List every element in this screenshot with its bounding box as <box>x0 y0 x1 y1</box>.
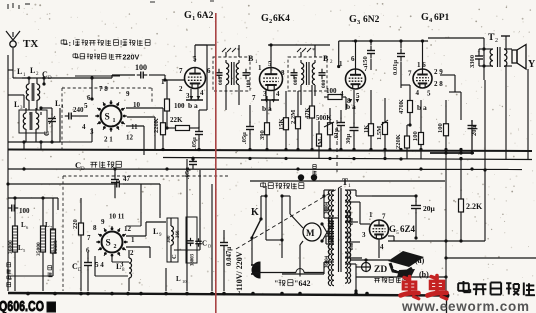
label G2 6K4 <box>261 13 290 25</box>
wire right lower h1 <box>444 256 536 259</box>
transistor picture b <box>397 269 429 279</box>
wire power top <box>372 195 416 197</box>
svg-text:150: 150 <box>362 56 369 66</box>
tube G2 <box>260 68 283 91</box>
G2 pins <box>252 60 285 102</box>
wire S1 stubs <box>8 108 163 155</box>
wire antenna to coils <box>13 70 44 78</box>
IF transformer B1 <box>213 45 250 110</box>
svg-text:1: 1 <box>369 211 373 219</box>
speaker Y <box>512 45 536 71</box>
resistor 390 <box>259 96 270 150</box>
wire G2 top <box>269 43 272 68</box>
svg-text:L: L <box>30 66 35 75</box>
coil column3 <box>51 220 60 262</box>
svg-text:100: 100 <box>326 87 337 95</box>
watermark url <box>401 299 530 313</box>
svg-text:100: 100 <box>412 131 419 141</box>
svg-text:"642: "642 <box>294 279 310 288</box>
wire G3 top <box>337 39 357 69</box>
resistor 22K <box>166 116 199 131</box>
label hongxing <box>274 279 310 288</box>
svg-text:b a: b a <box>188 101 198 110</box>
svg-text:500K: 500K <box>316 115 332 122</box>
watermark Q606 <box>0 298 56 313</box>
junction dots lower <box>22 148 486 172</box>
label L4 <box>55 99 64 110</box>
coil L6 column <box>8 216 29 291</box>
svg-text:360: 360 <box>176 230 181 238</box>
svg-text:D: D <box>78 268 82 273</box>
svg-text:1M: 1M <box>317 139 324 148</box>
dashed link <box>236 120 342 249</box>
svg-text:S: S <box>106 239 111 249</box>
wire K top <box>261 188 268 240</box>
watermark bug1 <box>401 277 419 299</box>
resistor 100 b2 <box>324 87 346 110</box>
svg-text:36000: 36000 <box>8 240 14 254</box>
volume pot 500K <box>316 108 334 150</box>
tube G3 <box>346 69 366 89</box>
svg-text:5: 5 <box>356 92 360 100</box>
resistor 100 g4k <box>412 100 424 159</box>
antenna TX <box>6 31 38 70</box>
svg-text::: : <box>69 39 72 48</box>
svg-text:S: S <box>105 113 110 123</box>
band switch S1 <box>95 100 127 132</box>
svg-text:5: 5 <box>427 90 431 98</box>
svg-text:1K: 1K <box>363 125 370 133</box>
core L1 L2 <box>32 83 34 101</box>
band switch S2 <box>96 226 128 258</box>
capacitor .05u lower <box>184 157 197 180</box>
wire out mid <box>430 151 474 154</box>
svg-text:3: 3 <box>186 92 190 100</box>
dashed frame S2 <box>63 176 230 291</box>
wire G4 top <box>421 39 424 69</box>
svg-text:G: G <box>184 10 192 21</box>
svg-text:1: 1 <box>161 78 165 86</box>
resistor 2.2K <box>459 199 484 243</box>
svg-text:6K4: 6K4 <box>273 14 290 24</box>
label L5 <box>18 244 26 253</box>
svg-text:8: 8 <box>281 69 285 77</box>
svg-text:~110V/ 220V: ~110V/ 220V <box>235 251 244 295</box>
svg-text:36004: 36004 <box>325 201 330 214</box>
power transformer T1 <box>325 188 355 286</box>
osc coil box <box>167 218 178 262</box>
svg-text:b a: b a <box>417 103 427 112</box>
svg-text:(a): (a) <box>415 256 425 265</box>
svg-text:7: 7 <box>87 234 91 242</box>
wire S1 to G1 <box>90 75 184 82</box>
resistor 220K g4 <box>395 123 412 159</box>
wire right edge vertical <box>505 90 507 160</box>
svg-text:7: 7 <box>179 67 183 75</box>
coil L7 column <box>36 216 53 291</box>
svg-text:220K: 220K <box>153 118 160 133</box>
wire screen vertical right <box>484 80 486 241</box>
wire mid verticals <box>126 159 232 291</box>
pot 1.5M <box>376 98 388 159</box>
svg-text:G: G <box>349 14 357 25</box>
S2 numbers <box>86 213 135 270</box>
svg-text:4: 4 <box>82 123 86 131</box>
G3 pins <box>339 55 368 105</box>
svg-text:C: C <box>171 254 178 259</box>
svg-text:6A2: 6A2 <box>197 11 214 21</box>
svg-text:0.01μ: 0.01μ <box>392 60 399 75</box>
svg-text:1 6: 1 6 <box>417 61 426 69</box>
wire T2 top <box>428 38 484 41</box>
red line <box>215 13 217 313</box>
svg-text:5 4: 5 4 <box>95 261 104 269</box>
svg-text:D: D <box>81 167 85 172</box>
svg-text:www.eeworm.com: www.eeworm.com <box>401 299 530 313</box>
capacitor 240 padder <box>65 106 88 120</box>
motor M <box>303 223 321 241</box>
svg-text:9: 9 <box>101 218 105 226</box>
svg-text:080: 080 <box>293 77 299 86</box>
label L1 L2 CD <box>17 66 52 81</box>
IF transformer B2 <box>288 45 327 105</box>
svg-text:L: L <box>153 227 158 236</box>
wire AVC bus <box>163 158 532 160</box>
wire G1 bottom <box>186 89 203 100</box>
top edge artifacts <box>8 1 214 9</box>
wire L2 to S1 <box>44 76 120 101</box>
svg-text:1: 1 <box>348 183 351 189</box>
wire bl mesh <box>8 196 58 276</box>
resistor 2.2M <box>290 91 301 150</box>
svg-text:12: 12 <box>126 134 134 142</box>
core L3 L4 <box>19 110 47 133</box>
svg-text:5: 5 <box>84 102 88 110</box>
svg-text:390: 390 <box>259 130 266 140</box>
svg-text:1.5M: 1.5M <box>376 126 383 140</box>
svg-text:(b): (b) <box>419 270 429 279</box>
label tone rotated <box>313 165 317 175</box>
svg-text:35000: 35000 <box>36 242 42 256</box>
svg-text:K: K <box>251 207 259 218</box>
coil L4 <box>36 108 39 142</box>
svg-text:G: G <box>421 12 429 23</box>
tube G1 <box>185 68 206 89</box>
wire top tube caps <box>195 41 428 45</box>
capacitor 0.01u coupling <box>392 39 405 88</box>
S1 numbers <box>82 85 141 144</box>
svg-text:100: 100 <box>135 63 147 72</box>
svg-text:1: 1 <box>258 64 262 72</box>
coil L3 <box>23 108 26 142</box>
svg-text:220: 220 <box>72 219 79 229</box>
svg-text:2: 2 <box>114 244 117 250</box>
resistor 470K <box>398 85 413 125</box>
svg-text:240: 240 <box>73 106 84 114</box>
label power socket <box>261 174 318 189</box>
svg-text:9: 9 <box>126 90 130 98</box>
svg-text:B: B <box>323 54 329 63</box>
svg-text:22K: 22K <box>170 116 183 124</box>
svg-text:080: 080 <box>350 242 355 250</box>
svg-text:G: G <box>389 224 396 234</box>
resistor 15K <box>278 91 289 150</box>
capacitor 30u <box>345 90 359 150</box>
capacitor 20u right <box>468 120 479 150</box>
svg-text:2: 2 <box>269 18 272 25</box>
svg-text:1: 1 <box>192 15 195 22</box>
svg-text:4: 4 <box>416 89 420 97</box>
label longwave coil <box>7 263 11 287</box>
B2 top ticks <box>297 48 315 54</box>
svg-text:2 8: 2 8 <box>434 80 443 88</box>
svg-text:Q606.CO: Q606.CO <box>0 298 44 313</box>
wire power mid <box>252 194 324 276</box>
svg-text:6: 6 <box>351 55 355 63</box>
capacitor 100 bl <box>8 205 30 216</box>
label shortwave <box>48 266 52 277</box>
wire bottom ground bus <box>8 293 446 296</box>
label G4 6P1 <box>421 12 450 24</box>
svg-text:Y: Y <box>528 59 536 70</box>
label T1 <box>342 177 351 189</box>
watermark bug2 <box>428 276 447 299</box>
svg-text:20μ: 20μ <box>423 204 436 213</box>
svg-text:G: G <box>261 13 269 24</box>
svg-text:300: 300 <box>167 235 172 243</box>
resistor 1K <box>363 90 374 150</box>
G1 pins <box>161 55 211 100</box>
svg-text:*: * <box>312 48 315 54</box>
svg-text:.05μ: .05μ <box>241 132 248 144</box>
wire G5 plate <box>360 202 485 258</box>
svg-text:15K: 15K <box>278 118 285 130</box>
G3 ba <box>346 99 359 111</box>
svg-text:6: 6 <box>87 94 91 102</box>
svg-text:8: 8 <box>93 224 97 232</box>
wire filter vertical <box>460 159 462 199</box>
zener ZD <box>356 263 387 276</box>
svg-text:220V: 220V <box>123 53 140 62</box>
svg-text:100: 100 <box>19 207 30 215</box>
capacitor 20u filter <box>411 194 436 239</box>
svg-text:B: B <box>248 54 254 63</box>
svg-text:100: 100 <box>437 123 444 133</box>
svg-text:1: 1 <box>113 118 116 124</box>
wire B+ right vertical <box>471 120 473 152</box>
wire lower bus <box>8 168 522 171</box>
B1 top ticks <box>222 48 240 54</box>
svg-text:L: L <box>55 99 60 108</box>
svg-text:180: 180 <box>246 80 252 89</box>
svg-text:7 8: 7 8 <box>99 85 108 93</box>
wire main B+ bus <box>8 150 532 152</box>
junction dots B bus <box>161 148 462 151</box>
svg-text:7: 7 <box>382 213 386 221</box>
dashed frame S1 <box>62 88 152 150</box>
wire osc top <box>6 182 160 218</box>
label L3 <box>14 100 23 111</box>
capacitor 47 <box>113 175 131 188</box>
label G5 6Z4 <box>389 224 416 236</box>
resistor 220K <box>153 108 166 150</box>
resistor 47K <box>304 85 315 150</box>
capacitor mid bl <box>111 170 119 198</box>
svg-text:M: M <box>306 228 315 238</box>
svg-text:6Z4: 6Z4 <box>400 224 416 234</box>
resistor 100 out <box>437 100 449 298</box>
svg-text:7: 7 <box>252 94 256 102</box>
svg-text:5: 5 <box>396 230 399 236</box>
label B2 <box>293 54 333 88</box>
svg-text:L: L <box>17 67 22 76</box>
capacitor 150 <box>362 39 375 70</box>
svg-text:100: 100 <box>174 102 185 110</box>
capacitor .01u mid <box>333 110 345 150</box>
tube G5 <box>370 220 389 239</box>
wire G2 legs <box>261 90 279 110</box>
watermark site name <box>458 281 535 295</box>
T1 left taps <box>282 190 334 274</box>
wire speaker <box>501 36 528 160</box>
wire right lower h2 <box>356 275 448 278</box>
transistor picture a <box>388 251 425 273</box>
svg-text:L: L <box>116 262 121 271</box>
label transistor outline <box>374 278 408 283</box>
svg-text:11: 11 <box>131 123 138 131</box>
wire ZD row <box>350 258 390 262</box>
svg-text:2: 2 <box>495 38 498 44</box>
svg-text:.05μ: .05μ <box>191 137 198 149</box>
svg-text:6P1: 6P1 <box>434 13 450 23</box>
label L9 <box>153 227 162 238</box>
wire G4 plate <box>440 75 463 160</box>
wire S2 stubs <box>95 222 166 276</box>
output transformer T2 <box>482 41 507 80</box>
svg-text:220K: 220K <box>395 134 402 149</box>
svg-text:3: 3 <box>362 231 366 239</box>
svg-text:4: 4 <box>276 90 280 98</box>
svg-text:ZD: ZD <box>374 265 387 275</box>
plug <box>251 262 260 278</box>
svg-text:C: C <box>202 240 207 248</box>
svg-text:.01μ: .01μ <box>333 128 340 140</box>
svg-text:6: 6 <box>207 67 211 75</box>
G5 pins <box>362 211 386 251</box>
resistor 220 <box>72 198 84 291</box>
label B1 <box>218 54 258 88</box>
G2 ba <box>262 99 275 113</box>
motor contacts <box>320 218 338 243</box>
capacitor .05u g1 <box>191 110 203 150</box>
svg-text:10 11: 10 11 <box>109 213 125 221</box>
capacitor .05u mid <box>241 105 254 150</box>
svg-text:T: T <box>488 33 495 43</box>
svg-text:4: 4 <box>340 90 344 98</box>
svg-text:2.2K: 2.2K <box>466 202 483 211</box>
wire input mesh <box>8 70 60 150</box>
wire rectifier output vertical <box>446 295 448 313</box>
resistor 1M <box>317 121 325 159</box>
svg-text:2: 2 <box>130 249 134 257</box>
label G1 6A2 <box>184 10 214 22</box>
svg-text:4: 4 <box>380 243 384 251</box>
label CD compensate <box>75 160 121 172</box>
capacitor CD osc <box>72 217 212 291</box>
svg-text:3300: 3300 <box>469 55 476 68</box>
svg-text:L: L <box>14 100 19 109</box>
svg-text:0.047μ: 0.047μ <box>226 247 233 266</box>
svg-text:09990: 09990 <box>53 240 59 254</box>
note line2 <box>73 53 139 62</box>
label voltage <box>235 251 244 295</box>
T1 right taps <box>345 190 372 293</box>
svg-text:080: 080 <box>350 217 355 225</box>
svg-text:2: 2 <box>179 85 183 93</box>
svg-text:080: 080 <box>218 77 224 86</box>
capacitor 0.047u <box>220 230 233 266</box>
svg-text:4: 4 <box>200 89 204 97</box>
svg-text:L: L <box>176 275 181 283</box>
junction dots avc <box>191 157 462 299</box>
coil L2 <box>37 76 46 110</box>
resistor 100 G1 <box>165 92 186 118</box>
svg-text:47K: 47K <box>304 107 311 119</box>
svg-text:1: 1 <box>131 236 135 244</box>
svg-text:": " <box>274 279 278 288</box>
capacitor CD input trim <box>42 78 56 136</box>
capacitor 100 top <box>135 63 147 79</box>
svg-text:2 1: 2 1 <box>104 136 113 144</box>
label T2 <box>488 33 498 44</box>
svg-text:6N2: 6N2 <box>363 15 380 25</box>
coil L8 <box>112 250 132 291</box>
wire G1 top cap <box>194 45 196 62</box>
svg-text:*: * <box>237 48 240 54</box>
wire heater bus <box>250 180 445 182</box>
wire left frame vertical <box>7 55 9 291</box>
label G3 6N2 <box>349 14 380 26</box>
svg-text:30μ: 30μ <box>345 134 352 145</box>
junction dots bottom bus <box>26 292 369 296</box>
switch K <box>250 207 262 262</box>
svg-text:36003: 36003 <box>191 253 196 266</box>
label L8 <box>116 262 125 273</box>
note line1 <box>61 39 150 48</box>
svg-text:TX: TX <box>23 38 38 50</box>
coil L1 <box>26 76 30 110</box>
G1 ba <box>188 96 200 110</box>
svg-text:2.2M: 2.2M <box>290 110 297 124</box>
capacitor 3300 <box>469 49 484 68</box>
svg-text:7: 7 <box>408 70 412 78</box>
wire G1 cathode <box>165 45 207 130</box>
G4 pins <box>408 61 443 112</box>
svg-text:470K: 470K <box>398 99 405 114</box>
tube G4 <box>413 69 432 88</box>
